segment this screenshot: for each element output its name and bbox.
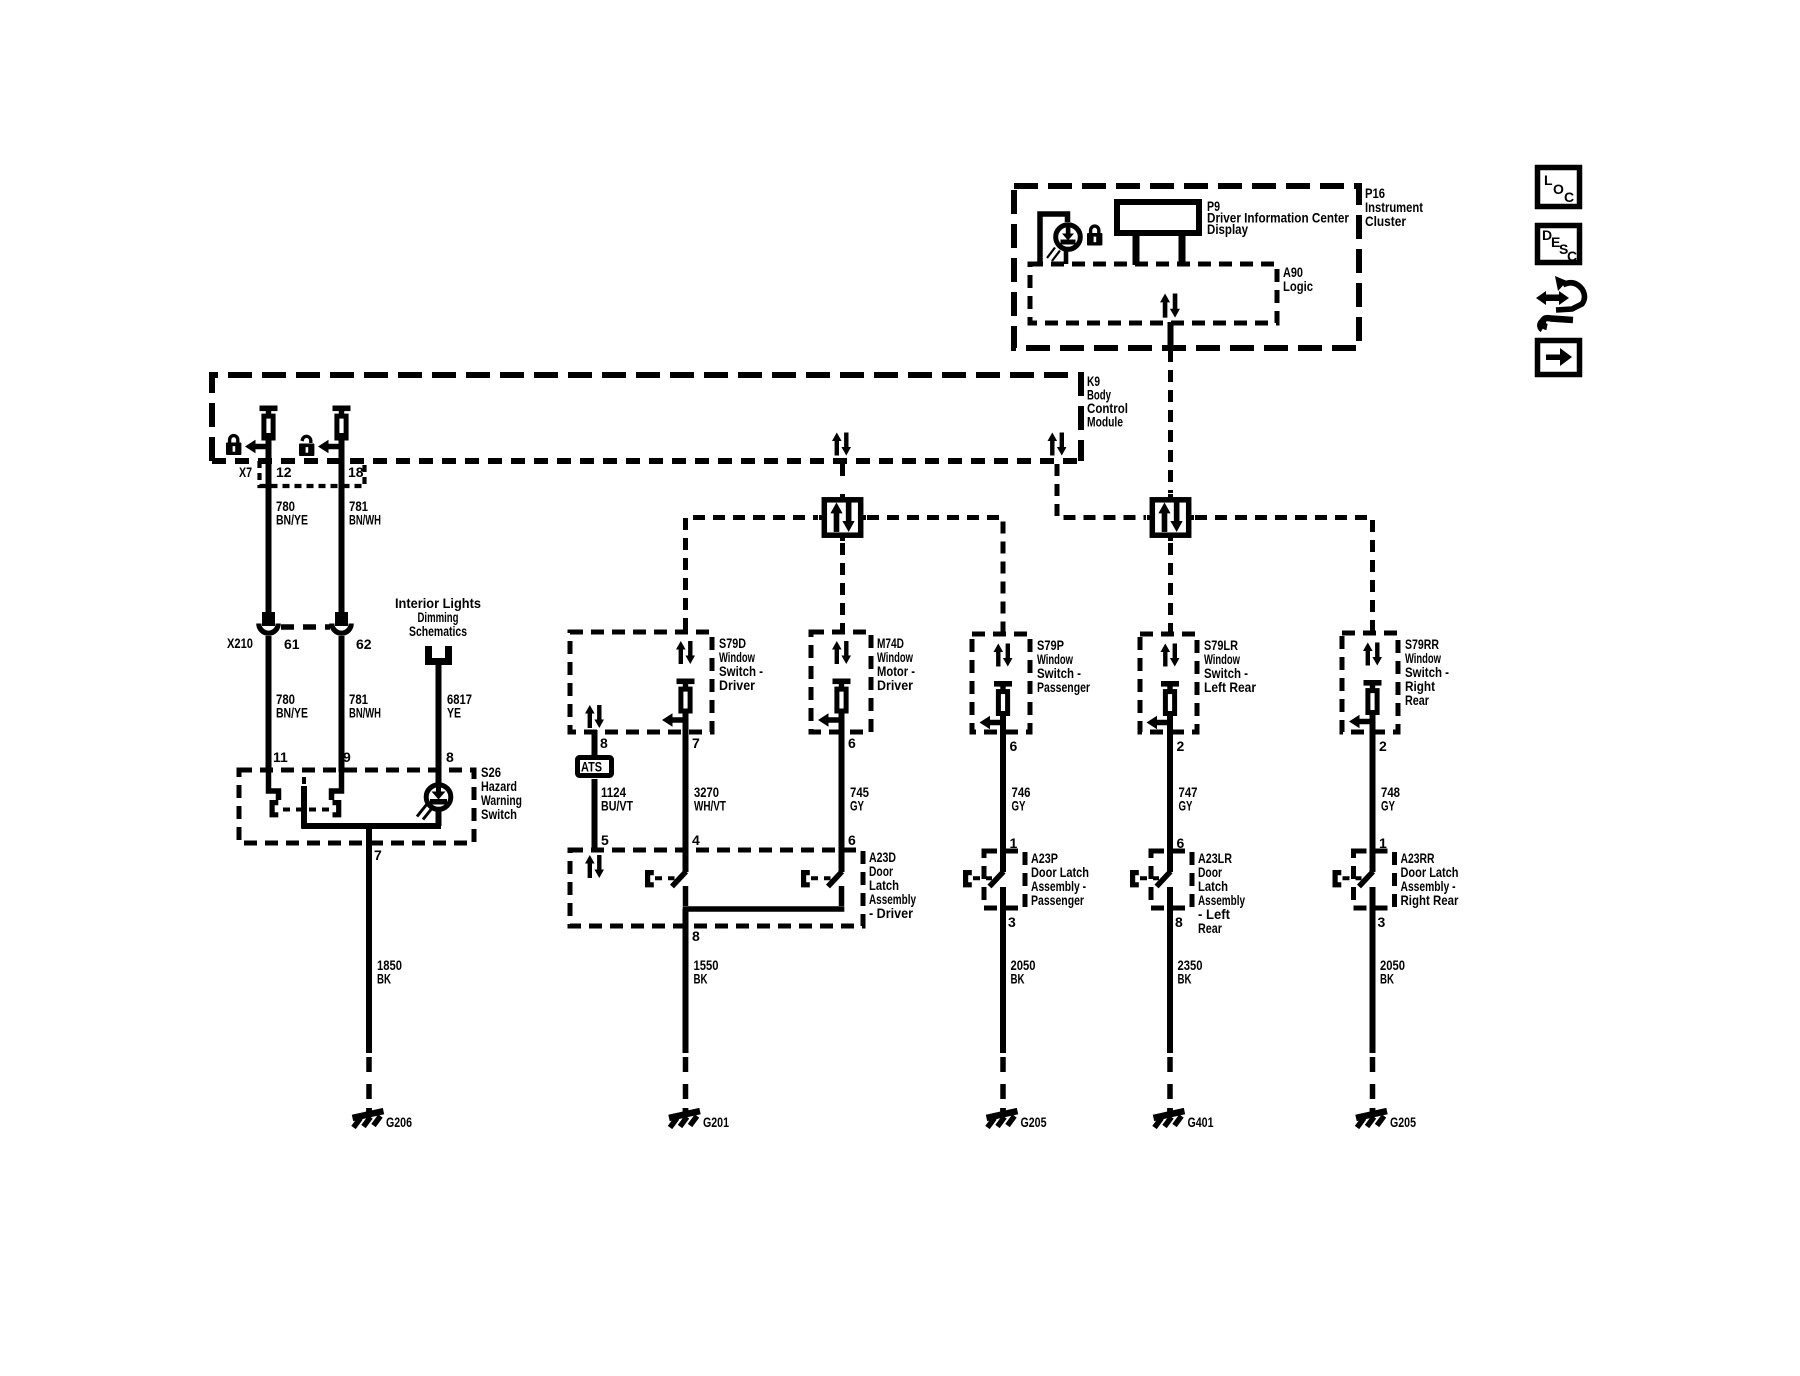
actuator arrow M74D window motor driver bbox=[818, 713, 842, 727]
wire 1550 BK bbox=[683, 926, 689, 1110]
svg-text:4: 4 bbox=[692, 832, 700, 848]
svg-text:BN/YE: BN/YE bbox=[276, 705, 308, 721]
pin 6 M74D window motor driver bbox=[848, 735, 856, 751]
actuator S79D window switch driver bbox=[677, 679, 695, 873]
door latch assembly A23LR box bbox=[1151, 851, 1192, 908]
label G201 bbox=[703, 1114, 729, 1130]
wire 780 upper bbox=[266, 460, 272, 613]
svg-text:Right Rear: Right Rear bbox=[1401, 892, 1459, 908]
data gateway right bbox=[1147, 494, 1194, 541]
S26 internal bus bbox=[302, 808, 442, 845]
serial data drop K9 right bbox=[1057, 464, 1146, 518]
svg-text:BN/WH: BN/WH bbox=[349, 705, 381, 721]
wire 6817 YE bbox=[436, 663, 442, 786]
icon LOC bbox=[1538, 168, 1580, 207]
pin 1 S79RR window switch right rear lower bbox=[1379, 835, 1387, 851]
svg-text:6: 6 bbox=[1010, 738, 1018, 754]
svg-text:9: 9 bbox=[343, 749, 351, 765]
label G206 bbox=[386, 1114, 412, 1130]
pin 3 A23P bbox=[1008, 914, 1016, 930]
svg-text:G205: G205 bbox=[1390, 1114, 1416, 1130]
svg-text:Cluster: Cluster bbox=[1365, 213, 1406, 229]
label ground A23LR bbox=[1188, 1114, 1214, 1130]
svg-text:BK: BK bbox=[1178, 971, 1192, 987]
svg-text:Passenger: Passenger bbox=[1037, 679, 1090, 695]
serial data arrows S79RR window switch right rear bbox=[1363, 643, 1382, 666]
svg-text:8: 8 bbox=[446, 749, 454, 765]
wire S79D to ATS bbox=[592, 730, 598, 756]
label 780 BN/YE upper bbox=[276, 498, 308, 528]
svg-text:6: 6 bbox=[848, 832, 856, 848]
A23RR lower wire bbox=[1370, 887, 1376, 1110]
svg-text:X210: X210 bbox=[227, 635, 253, 651]
icon harness routing bbox=[1536, 276, 1585, 330]
label K9 Body Control Module bbox=[1087, 373, 1128, 430]
pin 6 S79P window switch passenger bbox=[1010, 738, 1018, 754]
door latch assembly A23RR box bbox=[1354, 851, 1395, 908]
label S79RR window switch right rear bbox=[1405, 636, 1449, 708]
pin 8 a23d bbox=[692, 928, 700, 944]
pin 6 M74D window motor driver lower bbox=[848, 832, 856, 848]
splice link bbox=[281, 624, 330, 630]
lock output driver bbox=[260, 406, 278, 463]
svg-text:7: 7 bbox=[374, 847, 382, 863]
label wire 745 GY M74D window motor driver bbox=[850, 784, 869, 814]
svg-text:2: 2 bbox=[1379, 738, 1387, 754]
ground G205 A23P bbox=[987, 1108, 1018, 1128]
label P9 Driver Information Center Display bbox=[1207, 198, 1349, 237]
serial data arrows S79D aux bbox=[585, 705, 604, 728]
svg-text:ATS: ATS bbox=[581, 759, 602, 775]
padlock icon P9 bbox=[1087, 226, 1102, 245]
label 780 BN/YE lower bbox=[276, 691, 308, 721]
svg-text:Left Rear: Left Rear bbox=[1204, 679, 1256, 695]
svg-text:BN/WH: BN/WH bbox=[349, 512, 381, 528]
svg-text:BK: BK bbox=[694, 971, 708, 987]
serial data to S79LR bbox=[1168, 543, 1173, 632]
S26 hazard indicator lamp bbox=[417, 785, 451, 820]
label S79P window switch passenger bbox=[1037, 637, 1090, 695]
svg-text:BN/YE: BN/YE bbox=[276, 512, 308, 528]
svg-text:8: 8 bbox=[692, 928, 700, 944]
A23LR switch contact bbox=[1133, 872, 1171, 887]
pin 1 S79P window switch passenger lower bbox=[1010, 835, 1018, 851]
wire 1850 BK bbox=[366, 843, 372, 1110]
svg-text:8: 8 bbox=[600, 735, 608, 751]
A23P switch contact bbox=[966, 872, 1004, 887]
svg-text:G401: G401 bbox=[1188, 1114, 1214, 1130]
icon DESC bbox=[1538, 226, 1580, 265]
svg-text:BU/VT: BU/VT bbox=[601, 798, 633, 814]
lock open icon bbox=[299, 436, 314, 456]
window unit S79D window switch driver box bbox=[570, 632, 712, 732]
actuator S79RR window switch right rear bbox=[1364, 680, 1382, 872]
label 781 BN/WH upper bbox=[349, 498, 381, 528]
svg-text:Rear: Rear bbox=[1405, 692, 1429, 708]
serial data from A90 bbox=[1168, 350, 1173, 493]
svg-text:L: L bbox=[1544, 172, 1553, 188]
actuator S79LR window switch left rear bbox=[1161, 681, 1179, 872]
pin 18 bbox=[348, 464, 364, 480]
serial data bus right segment bbox=[1195, 518, 1373, 632]
svg-text:BK: BK bbox=[377, 971, 391, 987]
S26 switch pole bbox=[301, 786, 307, 829]
svg-text:18: 18 bbox=[348, 464, 364, 480]
label wire A23LR bbox=[1178, 957, 1203, 987]
window unit M74D window motor driver box bbox=[811, 632, 871, 732]
actuator S79P window switch passenger bbox=[994, 681, 1012, 872]
pin 62 bbox=[356, 636, 372, 652]
serial data arrows A23D bbox=[585, 855, 604, 878]
serial data arrows S79P window switch passenger bbox=[994, 644, 1013, 667]
serial data arrows S79LR window switch left rear bbox=[1161, 644, 1180, 667]
label 781 BN/WH lower bbox=[349, 691, 381, 721]
serial data drop K9 left bbox=[840, 464, 845, 476]
svg-text:11: 11 bbox=[273, 749, 288, 765]
A23D internal bus bbox=[683, 886, 845, 930]
label A23RR bbox=[1401, 850, 1459, 908]
serial data arrows S79D window switch driver bbox=[676, 641, 695, 664]
serial data bus left bbox=[686, 518, 819, 631]
svg-text:6: 6 bbox=[848, 735, 856, 751]
S26 left contact jog bbox=[269, 770, 279, 800]
label 1124 BU/VT bbox=[601, 784, 633, 814]
label S26 Hazard Warning Switch bbox=[481, 764, 522, 822]
door indicator lamp bbox=[1047, 225, 1080, 264]
splice X210 pin 61 bbox=[259, 612, 278, 633]
svg-text:61: 61 bbox=[284, 636, 300, 652]
label 6817 YE bbox=[447, 691, 472, 721]
svg-text:BK: BK bbox=[1011, 971, 1025, 987]
pin 12 bbox=[276, 464, 292, 480]
actuator arrow S79D window switch driver bbox=[662, 713, 686, 727]
actuator arrow S79P window switch passenger bbox=[980, 716, 1004, 730]
svg-text:X7: X7 bbox=[239, 464, 252, 480]
display P9 bbox=[1117, 202, 1199, 265]
wire 1124 BU/VT bbox=[592, 779, 598, 851]
lock closed icon bbox=[226, 436, 241, 455]
svg-text:2: 2 bbox=[1177, 738, 1185, 754]
label wire 747 GY S79LR window switch left rear bbox=[1179, 784, 1198, 814]
svg-text:Switch: Switch bbox=[481, 806, 517, 822]
svg-text:3: 3 bbox=[1008, 914, 1016, 930]
pin 7 S79D window switch driver bbox=[692, 735, 700, 751]
window unit S79LR window switch left rear box bbox=[1140, 634, 1197, 732]
svg-text:O: O bbox=[1553, 181, 1564, 197]
actuator arrow S79RR window switch right rear bbox=[1349, 715, 1373, 729]
svg-text:G205: G205 bbox=[1021, 1114, 1047, 1130]
instrument cluster P16 box bbox=[1014, 186, 1359, 348]
label X210 bbox=[227, 635, 253, 651]
svg-text:G201: G201 bbox=[703, 1114, 729, 1130]
label A23D bbox=[869, 849, 916, 921]
ground G201 bbox=[669, 1108, 700, 1128]
hazard warning switch S26 box bbox=[239, 770, 474, 843]
A23LR lower wire bbox=[1167, 887, 1173, 1110]
pin 9 bbox=[343, 749, 351, 765]
window unit S79RR window switch right rear box bbox=[1342, 633, 1398, 732]
off-page ref Interior Lights Dimming Schematics bbox=[395, 595, 481, 662]
svg-text:Rear: Rear bbox=[1198, 920, 1222, 936]
actuator M74D window motor driver bbox=[833, 679, 851, 873]
label A23P bbox=[1031, 850, 1089, 908]
svg-text:Module: Module bbox=[1087, 414, 1123, 430]
svg-text:YE: YE bbox=[447, 705, 461, 721]
pin 3 A23RR bbox=[1378, 914, 1386, 930]
window unit S79P window switch passenger box bbox=[972, 634, 1030, 732]
pin 8 A23LR bbox=[1175, 914, 1183, 930]
svg-text:GY: GY bbox=[1179, 798, 1193, 814]
unlock command arrow bbox=[318, 440, 342, 454]
svg-text:C: C bbox=[1564, 189, 1574, 205]
ground G205 A23RR bbox=[1356, 1108, 1387, 1128]
pin 7 bbox=[374, 847, 382, 863]
icon forward arrow bbox=[1538, 341, 1580, 375]
unlock output driver bbox=[333, 406, 351, 463]
wire 781 lower bbox=[339, 636, 345, 772]
pin 4 S79D window switch driver lower bbox=[692, 832, 700, 848]
label 1550 BK bbox=[694, 957, 719, 987]
svg-text:GY: GY bbox=[850, 798, 864, 814]
label M74D window motor driver bbox=[877, 635, 915, 693]
label P16 Instrument Cluster bbox=[1365, 185, 1423, 229]
serial data to M74D bbox=[840, 543, 845, 630]
label S79LR window switch left rear bbox=[1204, 637, 1256, 695]
serial data arrows K9 right bbox=[1048, 433, 1067, 456]
S26 right contact bracket bbox=[333, 803, 339, 815]
svg-text:12: 12 bbox=[276, 464, 292, 480]
ground G206 bbox=[353, 1108, 384, 1128]
svg-text:GY: GY bbox=[1381, 798, 1395, 814]
pin 8 s26 bbox=[446, 749, 454, 765]
label ground A23P bbox=[1021, 1114, 1047, 1130]
pin 11 bbox=[273, 749, 288, 765]
svg-text:C: C bbox=[1567, 248, 1577, 264]
svg-text:Driver: Driver bbox=[719, 677, 755, 693]
label 1850 BK bbox=[377, 957, 402, 987]
pin 2 S79RR window switch right rear bbox=[1379, 738, 1387, 754]
serial data arrows A90 bbox=[1160, 294, 1180, 318]
A90 output stub bbox=[1168, 322, 1174, 346]
serial data arrows M74D window motor driver bbox=[832, 641, 851, 664]
svg-text:Display: Display bbox=[1207, 221, 1248, 237]
door latch assembly A23D box bbox=[570, 850, 863, 926]
label A90 Logic bbox=[1283, 264, 1313, 294]
pin 61 bbox=[284, 636, 300, 652]
A23D motor contact bbox=[804, 872, 842, 887]
A23P lower wire bbox=[1000, 887, 1006, 1110]
label A23LR bbox=[1198, 850, 1245, 936]
svg-text:7: 7 bbox=[692, 735, 700, 751]
svg-text:Schematics: Schematics bbox=[409, 623, 467, 639]
S26 left contact bracket bbox=[272, 803, 278, 815]
svg-text:3: 3 bbox=[1378, 914, 1386, 930]
wire 781 upper bbox=[339, 460, 345, 613]
label S79D window switch driver bbox=[719, 635, 763, 693]
ground G401 A23LR bbox=[1154, 1108, 1185, 1128]
svg-text:8: 8 bbox=[1175, 914, 1183, 930]
svg-text:Driver: Driver bbox=[877, 677, 913, 693]
label ground A23RR bbox=[1390, 1114, 1416, 1130]
serial data bus left right segment bbox=[867, 518, 1003, 633]
svg-text:62: 62 bbox=[356, 636, 372, 652]
pin 2 S79LR window switch left rear bbox=[1177, 738, 1185, 754]
wire 780 lower bbox=[266, 636, 272, 772]
svg-text:GY: GY bbox=[1012, 798, 1026, 814]
svg-text:G206: G206 bbox=[386, 1114, 412, 1130]
label X7 bbox=[239, 464, 252, 480]
svg-text:WH/VT: WH/VT bbox=[694, 798, 726, 814]
label wire A23P bbox=[1011, 957, 1036, 987]
pin 8 ats bbox=[600, 735, 608, 751]
pin 6 S79LR window switch left rear lower bbox=[1177, 835, 1185, 851]
S26 mechanical link bbox=[283, 777, 329, 810]
lock command arrow bbox=[245, 440, 269, 454]
svg-text:- Driver: - Driver bbox=[869, 905, 913, 921]
A23RR switch contact bbox=[1335, 872, 1373, 887]
pin 5 bbox=[601, 832, 609, 848]
door open indicator frame bbox=[1040, 214, 1068, 264]
label wire 746 GY S79P window switch passenger bbox=[1012, 784, 1031, 814]
svg-text:BK: BK bbox=[1380, 971, 1394, 987]
svg-text:Passenger: Passenger bbox=[1031, 892, 1084, 908]
serial data arrows K9 left bbox=[832, 433, 851, 456]
data gateway left bbox=[819, 494, 866, 541]
ambient temp sensor ATS bbox=[578, 758, 612, 776]
connector X7 box bbox=[260, 461, 365, 486]
S26 right contact jog bbox=[332, 770, 342, 800]
actuator arrow S79LR window switch left rear bbox=[1147, 716, 1171, 730]
splice X210 pin 62 bbox=[332, 612, 351, 633]
logic block A90 box bbox=[1030, 264, 1277, 323]
door latch assembly A23P box bbox=[984, 851, 1025, 908]
label wire A23RR bbox=[1380, 957, 1405, 987]
label wire 748 GY S79RR window switch right rear bbox=[1381, 784, 1400, 814]
svg-text:Logic: Logic bbox=[1283, 278, 1313, 294]
A23D window switch contact bbox=[648, 872, 686, 887]
svg-text:5: 5 bbox=[601, 832, 609, 848]
body control module K9 box bbox=[212, 375, 1081, 461]
label wire 3270 WH/VT S79D window switch driver bbox=[694, 784, 726, 814]
